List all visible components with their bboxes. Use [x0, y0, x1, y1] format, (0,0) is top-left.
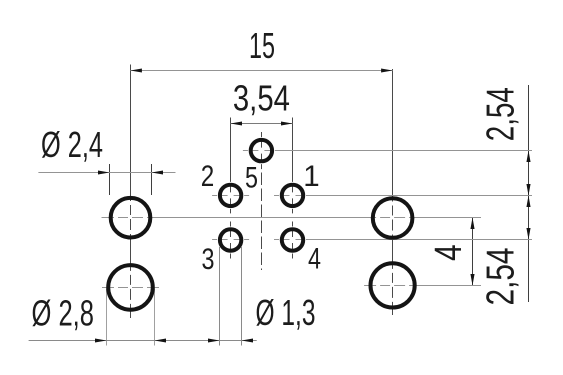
arrow diameter 1,3 right — [242, 338, 254, 342]
svg-text:2: 2 — [201, 160, 215, 193]
horizontal center line bottom right hole to dim 4 — [364, 285, 481, 287]
center line left hole column — [130, 65, 132, 319]
extension line diameter 2,8 left tangent — [106, 289, 108, 346]
extension line pin 5 row to right — [243, 150, 532, 152]
pin 2 hole — [220, 185, 241, 206]
arrow 3,54 left — [231, 121, 243, 125]
arrow 2,54 top up — [526, 151, 530, 163]
dimension line 3,54 — [231, 123, 293, 125]
extension line diameter 1,3 left tangent — [219, 247, 221, 346]
svg-text:4: 4 — [308, 243, 321, 276]
svg-text:Ø 1,3: Ø 1,3 — [256, 292, 316, 333]
arrow 2,54 bottom down — [526, 228, 530, 240]
arrow 2,54 top down — [526, 184, 530, 196]
extension line diameter 2,8 right tangent — [154, 289, 156, 346]
extension line pin 1 row to right with pin 2 crosshair — [212, 195, 532, 197]
svg-text:5: 5 — [245, 162, 258, 195]
center line pin 5 column — [261, 132, 263, 270]
pin 3 hole — [220, 229, 241, 250]
center line right hole column — [392, 69, 394, 315]
extension line pin 4 row to right with pin 3 crosshair — [212, 239, 532, 241]
arrow diameter 2,8 right — [155, 338, 167, 342]
arrow diameter 2,4 right — [152, 170, 164, 174]
dimension line 15 — [130, 70, 392, 72]
arrow diameter 2,8 left — [95, 338, 107, 342]
pin 1 hole — [282, 185, 303, 206]
arrow diameter 1,3 left — [208, 338, 220, 342]
center line pin 4 vertical — [292, 222, 294, 259]
dimension line diameter 2,4 — [38, 172, 175, 174]
pin 4 hole — [282, 229, 303, 250]
svg-text:2,54: 2,54 — [480, 248, 523, 306]
horizontal center line through top holes — [102, 217, 482, 219]
hole right top — [373, 198, 413, 238]
svg-text:Ø 2,4: Ø 2,4 — [41, 124, 103, 165]
extension line diameter 2,4 right tangent — [151, 164, 153, 195]
hole right bottom — [371, 263, 415, 307]
svg-text:2,54: 2,54 — [480, 87, 523, 141]
svg-text:3,54: 3,54 — [233, 78, 290, 119]
center line pin 3 vertical — [230, 222, 232, 259]
extension line 3,54 left through pin 2 — [230, 118, 232, 214]
dimension line 2,54 vertical — [528, 85, 530, 302]
dimension line 4 vertical — [472, 218, 474, 286]
svg-text:15: 15 — [249, 25, 275, 66]
arrow 3,54 right — [281, 121, 293, 125]
svg-text:3: 3 — [202, 243, 215, 276]
arrow 2,54 bottom up — [526, 196, 530, 208]
horizontal center line bottom left hole — [102, 287, 159, 289]
arrow diameter 2,4 left — [98, 170, 110, 174]
arrow 4 down — [470, 274, 474, 286]
extension line 3,54 right through pin 1 — [292, 118, 294, 214]
arrow 15 left — [130, 68, 142, 72]
arrow 15 right — [381, 68, 393, 72]
arrow 4 up — [470, 218, 474, 230]
hole left bottom diameter 2,8 — [108, 265, 153, 310]
pin 5 hole — [251, 140, 272, 161]
svg-text:1: 1 — [303, 160, 319, 193]
svg-text:Ø 2,8: Ø 2,8 — [32, 293, 95, 334]
extension line diameter 2,4 left tangent — [109, 164, 111, 195]
dimension line diameter 2,8 and 1,3 — [29, 340, 257, 342]
hole left top diameter 2,4 — [111, 198, 151, 238]
svg-text:4: 4 — [428, 244, 470, 261]
extension line diameter 1,3 right tangent — [241, 247, 243, 346]
